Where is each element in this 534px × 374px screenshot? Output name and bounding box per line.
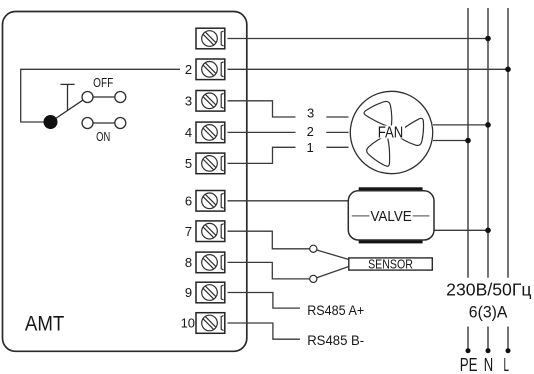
svg-text:АМТ: АМТ (25, 311, 64, 336)
svg-text:SENSOR: SENSOR (368, 257, 413, 272)
svg-text:2: 2 (185, 62, 192, 77)
svg-text:1: 1 (306, 140, 313, 155)
svg-text:230В/50Гц: 230В/50Гц (446, 280, 531, 300)
svg-text:10: 10 (181, 316, 195, 331)
svg-text:FAN: FAN (378, 125, 404, 142)
svg-text:5: 5 (185, 156, 192, 171)
svg-text:N: N (484, 354, 493, 374)
svg-text:OFF: OFF (93, 76, 113, 90)
svg-text:2: 2 (307, 124, 314, 139)
svg-text:3: 3 (307, 106, 314, 121)
svg-text:8: 8 (185, 255, 192, 270)
svg-text:RS485 B-: RS485 B- (307, 332, 364, 348)
svg-text:4: 4 (185, 125, 192, 140)
svg-text:7: 7 (185, 224, 192, 239)
svg-text:VALVE: VALVE (370, 209, 411, 225)
svg-text:3: 3 (185, 93, 192, 108)
svg-text:PE: PE (460, 354, 478, 374)
svg-text:ON: ON (96, 130, 110, 144)
svg-text:9: 9 (185, 285, 192, 300)
svg-text:6: 6 (185, 193, 192, 208)
svg-text:L: L (504, 354, 510, 374)
svg-text:6(3)А: 6(3)А (469, 304, 508, 322)
svg-text:RS485 A+: RS485 A+ (307, 302, 364, 318)
